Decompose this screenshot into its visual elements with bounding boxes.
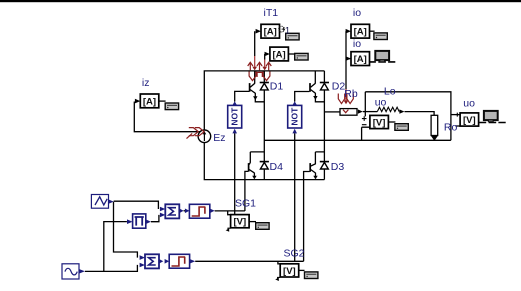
svg-text:iz: iz xyxy=(142,77,150,89)
svg-text:Rb: Rb xyxy=(344,88,358,100)
svg-text:io: io xyxy=(353,38,361,50)
svg-text:uo: uo xyxy=(463,97,475,109)
svg-text:Ro: Ro xyxy=(444,121,458,133)
svg-text:D1: D1 xyxy=(270,81,284,93)
svg-text:D4: D4 xyxy=(270,161,284,173)
svg-text:1: 1 xyxy=(285,25,290,36)
svg-text:uo: uo xyxy=(375,96,387,108)
svg-text:iT1: iT1 xyxy=(264,7,279,19)
svg-text:io: io xyxy=(353,7,361,19)
svg-text:SG2: SG2 xyxy=(284,248,305,260)
svg-text:D3: D3 xyxy=(331,161,345,173)
svg-text:SG1: SG1 xyxy=(235,198,256,210)
svg-text:Ez: Ez xyxy=(213,132,225,144)
